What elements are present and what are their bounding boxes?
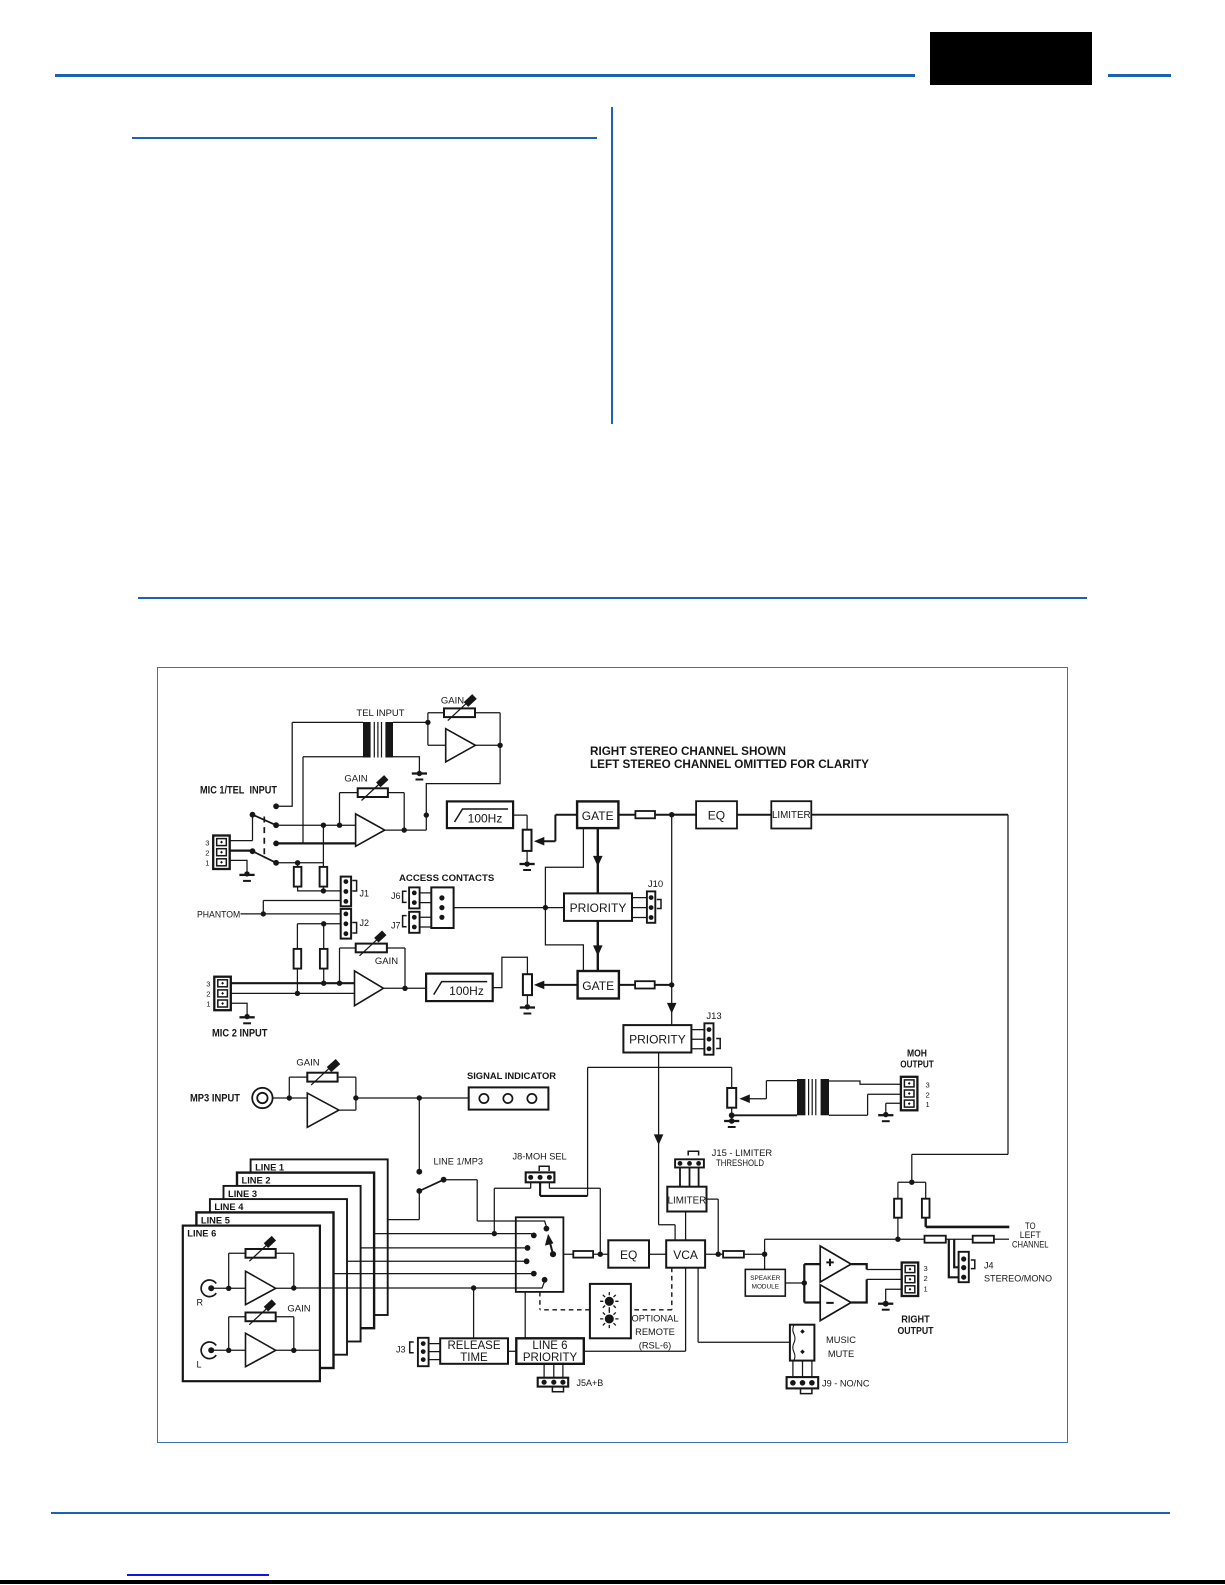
svg-text:ACCESS CONTACTS: ACCESS CONTACTS <box>399 873 495 884</box>
svg-text:GAIN: GAIN <box>296 1058 319 1069</box>
svg-text:1: 1 <box>206 1000 210 1009</box>
svg-text:PRIORITY: PRIORITY <box>523 1352 578 1364</box>
svg-text:GAIN: GAIN <box>287 1304 310 1315</box>
svg-text:GATE: GATE <box>582 979 614 993</box>
svg-text:2: 2 <box>206 990 210 999</box>
svg-text:MODULE: MODULE <box>752 1284 779 1291</box>
svg-text:3: 3 <box>205 838 209 847</box>
svg-text:J10: J10 <box>648 879 663 890</box>
svg-text:LINE 6: LINE 6 <box>187 1229 216 1239</box>
svg-text:1: 1 <box>926 1100 930 1109</box>
svg-text:LINE 3: LINE 3 <box>228 1189 257 1199</box>
svg-text:LINE 6: LINE 6 <box>532 1340 567 1352</box>
svg-text:LINE 4: LINE 4 <box>214 1202 244 1212</box>
svg-text:THRESHOLD: THRESHOLD <box>716 1157 764 1168</box>
svg-text:J2: J2 <box>360 918 370 928</box>
svg-text:PRIORITY: PRIORITY <box>629 1033 686 1047</box>
svg-text:EQ: EQ <box>708 809 725 823</box>
svg-text:J6: J6 <box>391 891 401 901</box>
svg-text:R: R <box>197 1298 204 1308</box>
svg-text:(RSL-6): (RSL-6) <box>639 1341 672 1351</box>
svg-text:J5A+B: J5A+B <box>577 1378 604 1388</box>
svg-text:GAIN: GAIN <box>375 956 398 967</box>
svg-text:OUTPUT: OUTPUT <box>898 1326 935 1337</box>
svg-text:3: 3 <box>206 979 210 988</box>
svg-text:3: 3 <box>926 1080 930 1089</box>
svg-text:L: L <box>197 1360 202 1370</box>
svg-text:1: 1 <box>924 1285 928 1294</box>
svg-text:LIMITER: LIMITER <box>668 1195 707 1206</box>
svg-text:100Hz: 100Hz <box>449 984 484 998</box>
svg-text:MUTE: MUTE <box>828 1349 854 1359</box>
svg-text:2: 2 <box>924 1274 928 1283</box>
svg-text:MIC 2 INPUT: MIC 2 INPUT <box>212 1028 268 1040</box>
svg-text:EQ: EQ <box>620 1248 637 1262</box>
svg-text:OPTIONAL: OPTIONAL <box>631 1314 678 1324</box>
svg-text:100Hz: 100Hz <box>468 812 503 826</box>
svg-text:LINE 5: LINE 5 <box>201 1215 230 1225</box>
svg-text:2: 2 <box>205 848 209 857</box>
svg-text:LINE 2: LINE 2 <box>242 1176 271 1186</box>
svg-text:J3: J3 <box>396 1345 406 1355</box>
svg-text:GATE: GATE <box>582 809 614 823</box>
svg-text:3: 3 <box>924 1264 928 1273</box>
svg-text:J8-MOH SEL: J8-MOH SEL <box>513 1152 567 1162</box>
svg-text:RIGHT: RIGHT <box>901 1315 930 1326</box>
svg-text:J13: J13 <box>706 1011 721 1022</box>
svg-text:STEREO/MONO: STEREO/MONO <box>984 1273 1052 1284</box>
svg-text:PHANTOM: PHANTOM <box>197 909 240 919</box>
svg-text:J7: J7 <box>391 921 401 931</box>
svg-text:SIGNAL INDICATOR: SIGNAL INDICATOR <box>467 1070 556 1081</box>
svg-text:MP3 INPUT: MP3 INPUT <box>190 1092 240 1104</box>
svg-text:RIGHT STEREO CHANNEL SHOWN: RIGHT STEREO CHANNEL SHOWN <box>590 744 786 758</box>
svg-text:2: 2 <box>926 1091 930 1100</box>
svg-text:J4: J4 <box>984 1260 994 1270</box>
svg-text:MOH: MOH <box>907 1048 927 1059</box>
svg-text:LEFT STEREO CHANNEL OMITTED FO: LEFT STEREO CHANNEL OMITTED FOR CLARITY <box>590 757 869 771</box>
svg-text:CHANNEL: CHANNEL <box>1012 1240 1049 1250</box>
svg-text:1: 1 <box>205 859 209 868</box>
svg-text:MUSIC: MUSIC <box>826 1335 856 1345</box>
svg-text:VCA: VCA <box>673 1248 698 1262</box>
svg-text:LIMITER: LIMITER <box>772 810 811 821</box>
svg-text:REMOTE: REMOTE <box>635 1327 675 1337</box>
svg-text:LINE 1/MP3: LINE 1/MP3 <box>434 1157 484 1167</box>
svg-text:OUTPUT: OUTPUT <box>900 1059 934 1070</box>
svg-text:J1: J1 <box>360 889 370 899</box>
svg-text:PRIORITY: PRIORITY <box>570 901 627 915</box>
svg-text:TIME: TIME <box>460 1352 488 1364</box>
svg-text:TEL INPUT: TEL INPUT <box>356 708 404 719</box>
svg-text:GAIN: GAIN <box>344 774 367 785</box>
svg-text:MIC 1/TEL INPUT: MIC 1/TEL INPUT <box>200 785 277 797</box>
svg-text:J9 - NO/NC: J9 - NO/NC <box>822 1378 870 1388</box>
svg-text:RELEASE: RELEASE <box>447 1340 500 1352</box>
svg-text:LINE 1: LINE 1 <box>255 1162 284 1172</box>
svg-text:SPEAKER: SPEAKER <box>750 1275 781 1282</box>
svg-text:GAIN: GAIN <box>441 696 464 707</box>
